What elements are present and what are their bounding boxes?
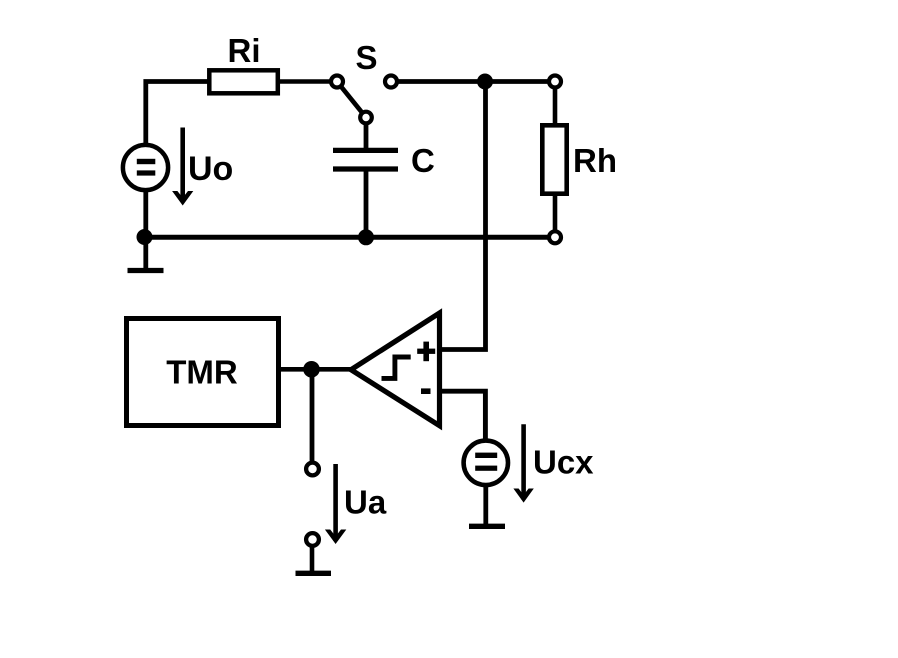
ground under Ucx: [469, 524, 505, 529]
junction node TMR output: [303, 361, 320, 378]
terminal Ua upper: [306, 463, 319, 476]
switch S right contact terminal: [385, 76, 397, 88]
comparator minus input mark: [421, 388, 431, 394]
svg-text:Rh: Rh: [573, 142, 617, 179]
comparator plus input mark: [417, 342, 435, 362]
voltage source Uo: [123, 145, 168, 190]
wire TMR to comparator apex: [279, 367, 353, 372]
junction node capacitor-rail: [358, 229, 374, 245]
label Uo: [188, 150, 233, 188]
block TMR: [127, 319, 279, 426]
wire switch throw down to capacitor: [364, 122, 369, 150]
label Ucx: [533, 444, 594, 481]
svg-text:Uo: Uo: [188, 150, 233, 188]
resistor Rh: [542, 125, 566, 193]
svg-text:TMR: TMR: [166, 354, 238, 391]
capacitor C top plate: [333, 148, 398, 153]
svg-text:Ua: Ua: [344, 484, 387, 521]
capacitor C bottom plate: [333, 166, 398, 171]
wire capacitor to bottom rail: [364, 169, 369, 239]
wire source Uo to bottom rail: [143, 190, 148, 239]
comparator U1: [351, 313, 440, 426]
wire TMR junction down to output terminal: [310, 369, 315, 462]
junction node top: [477, 74, 493, 90]
ground under source Uo: [128, 237, 164, 271]
arrow Ua: [325, 464, 346, 544]
voltage source Ucx: [464, 441, 508, 485]
wire Rh bottom to terminal: [553, 192, 558, 235]
ground under Ua: [296, 571, 332, 576]
wire lower terminal to ground: [310, 545, 315, 571]
wire source Ucx to ground: [483, 484, 488, 526]
resistor Ri: [209, 70, 277, 93]
terminal Rh top: [549, 76, 561, 88]
svg-text:S: S: [356, 39, 378, 76]
wire plus input from top junction down to comparator: [441, 82, 486, 350]
bottom rail wire: [146, 235, 549, 240]
comparator hysteresis step symbol: [382, 357, 411, 378]
arrow Uo: [172, 128, 193, 206]
label S: [356, 39, 378, 76]
terminal Ua lower: [306, 533, 319, 546]
label Rh: [573, 142, 617, 179]
label Ua: [344, 484, 387, 521]
switch S arm: [341, 87, 361, 112]
label C: [411, 142, 435, 179]
junction node bottom-left: [137, 229, 153, 245]
arrow Ucx: [513, 424, 533, 502]
svg-text:C: C: [411, 142, 435, 179]
svg-text:Ri: Ri: [228, 32, 261, 69]
wire resistor to switch: [278, 79, 330, 84]
switch S pole terminal: [331, 76, 343, 88]
switch S throw terminal: [360, 112, 372, 124]
wire minus input to source Ucx: [441, 391, 485, 441]
wire contact to Rh top: [397, 79, 549, 84]
terminal Rh bottom: [549, 231, 561, 243]
wire Rh top terminal down to resistor: [553, 84, 558, 126]
svg-text:Ucx: Ucx: [533, 444, 594, 481]
label TMR: [166, 354, 238, 391]
label Ri: [228, 32, 261, 69]
wire from source Uo up to top rail: [146, 82, 208, 146]
